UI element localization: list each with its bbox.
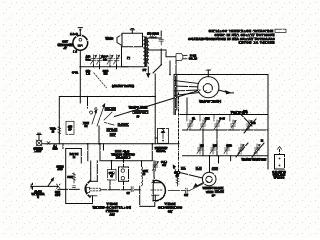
front wafer switch inner [203, 84, 212, 93]
highlighted label OSC (black) [118, 123, 130, 127]
tube V2 grid box [87, 187, 90, 192]
wire R16 bottom [109, 180, 111, 190]
front wafer switch outer [198, 77, 219, 98]
wire crystal drop [123, 158, 125, 168]
row2 bottom rail [183, 155, 268, 157]
switch S3 lever [153, 65, 162, 74]
resistor R8 box [66, 121, 74, 134]
tube V2 top lead [90, 174, 92, 181]
speaker SPKR horn [117, 35, 122, 46]
resistor R13 vertical [176, 176, 179, 186]
capacitor C16 to switch [168, 184, 203, 193]
wire R16 top [111, 161, 113, 170]
mechanical coupling dashed line [178, 93, 180, 172]
trimmer row 2 capacitor a [197, 144, 203, 154]
trimmer row 1 capacitor e (big arrow) [246, 120, 252, 130]
rear wafer top lead [209, 156, 211, 172]
resistor R7 hatched vertical [58, 126, 61, 135]
tube V3 envelope (D-shape) [153, 180, 165, 200]
wire to jack [155, 137, 157, 139]
band table cells [187, 115, 230, 122]
wire S3 down [154, 74, 156, 144]
tuning capacitor C2B [114, 55, 120, 65]
tube V3 cathode [152, 194, 159, 196]
jack arrow [162, 132, 164, 139]
trimmer row 1 capacitor d [230, 120, 236, 130]
coupling capacitor C15 [131, 187, 133, 192]
wire secondary to plug (steps) [148, 50, 175, 57]
transformer T1 core [145, 37, 147, 67]
test point jack rectangle [157, 129, 168, 144]
wire switch top [207, 75, 209, 77]
wire bus drop x63 [62, 144, 64, 149]
tuning capacitor C1A [91, 55, 97, 65]
tube V2 plate lead [96, 161, 98, 182]
tube V2 plate [90, 180, 97, 182]
crystal socket rectangle [119, 167, 129, 181]
tube V3 top lead [153, 177, 155, 183]
label CALIBRATE CRYSTAL SOCKET (3 lines, boxed word) [115, 150, 122, 153]
tube V1 (mixer) envelope [73, 35, 88, 50]
trimmer row 2 capacitor c [224, 144, 230, 154]
trimmer row 2 capacitor d (big arrow) [238, 144, 244, 154]
trimmer C24 above V3 [152, 161, 158, 171]
oscillator switch wafer arrows [90, 104, 115, 126]
wire V1 cathode down [79, 50, 81, 96]
highlighted label wafer (black) [106, 128, 117, 132]
wire crystal bottom [123, 181, 125, 190]
wire transformer bottom with arrow [147, 67, 149, 74]
wire cap bank drop C2 [109, 65, 111, 67]
wire switch to table [186, 98, 188, 115]
left shield box [59, 97, 155, 145]
antenna lead wire [79, 29, 81, 35]
wire bundle to switch left [174, 81, 199, 84]
tuning capacitor C2A [107, 55, 113, 65]
tube V2 cathode [89, 195, 96, 197]
inductor L2 coil [142, 167, 143, 186]
wire cap bank drop C1 [93, 65, 95, 67]
mid rail [100, 160, 152, 162]
speaker ground [131, 30, 133, 33]
wire transformer top to C14 [148, 37, 161, 39]
ground stub below bus [99, 65, 101, 69]
wire plug to box top a [169, 61, 171, 75]
wire coil drop [141, 161, 143, 167]
antenna terminal [79, 29, 81, 31]
resistor R22 vertical [73, 173, 76, 188]
wire V2 right to cap [101, 189, 132, 191]
wiper arrow right [219, 90, 227, 92]
phono jack antenna [38, 135, 40, 141]
junction dots [79, 74, 218, 191]
black label R17 [196, 167, 202, 171]
right enclosure box [174, 75, 268, 170]
trimmer row 2 capacitor e (big arrow) [254, 144, 260, 154]
tube V3 plate [152, 182, 161, 184]
rear wafer diagonal lead [176, 172, 203, 179]
resistor R21 (hatched) [150, 36, 157, 39]
wire osc switch down [98, 126, 100, 144]
rear wafer switch outer [202, 172, 216, 186]
tube V2 grids (dashed) [90, 187, 101, 189]
wire box top to switch [87, 97, 89, 109]
transformer T1 secondary winding [147, 38, 148, 63]
volume control x mark [57, 184, 61, 188]
wire bus drop x86 [87, 144, 89, 161]
table separator line [180, 114, 268, 116]
pointer line to 2nd row [241, 115, 252, 127]
volume control terminal bar [32, 183, 34, 189]
wire bus drop x99 [99, 144, 101, 161]
inner box VR tube region [66, 149, 93, 204]
tube V1 grid cap small circle [79, 38, 82, 41]
wire x152 drop [151, 144, 153, 161]
socket pin [279, 150, 281, 155]
tube V2 envelope (arc bulging left) [85, 181, 90, 197]
rear wafer switch inner [206, 176, 212, 182]
bus wire under tuning capacitors [80, 66, 128, 68]
phono jack [36, 140, 42, 146]
black label R18 [212, 167, 219, 171]
trimmer row 1 capacitor c [214, 120, 220, 130]
row1 bottom rail [183, 129, 268, 131]
volume control arrow [48, 180, 53, 187]
wire V2 left to volume [31, 185, 58, 187]
diagonal pointer to oscillator switch [115, 90, 201, 117]
stub above box with bar [207, 70, 209, 75]
wire under V3 [140, 186, 155, 206]
gang coupling dashed diagonal [94, 73, 107, 88]
tube V3 grids [151, 189, 164, 191]
junction marks on bus [47, 142, 50, 145]
rail stub a [218, 156, 220, 163]
trimmer row 1 capacitor a [187, 120, 193, 130]
trimmer row 1 capacitor b [200, 120, 206, 130]
black label C30 [181, 167, 186, 170]
highlighted label BAND (black) [105, 107, 117, 111]
trimmer row 2 capacitor b [210, 144, 216, 154]
wire bundle verticals [174, 75, 176, 115]
highlighted label pos (black) [110, 133, 117, 137]
node dot at bus [79, 66, 81, 68]
main horizontal bus [42, 143, 179, 145]
tuning capacitor C1B [97, 55, 103, 65]
rear wafer wiper arrow [197, 183, 204, 186]
resistor R16 box [108, 170, 117, 181]
rail stub b [230, 156, 232, 161]
wire speaker return loop [122, 47, 143, 67]
AC plug SO2 [176, 54, 187, 61]
transformer T1 primary winding [144, 37, 145, 67]
note: mechanical coupling symbol box [275, 29, 286, 32]
power socket rectangle [275, 155, 285, 170]
wire plug to box top b [175, 60, 177, 74]
wire bus drop x103 [103, 144, 105, 150]
capacitor C14 at transformer [159, 36, 163, 46]
tube V1 internal blob [78, 44, 83, 47]
wire trimmer row drops [189, 129, 191, 131]
